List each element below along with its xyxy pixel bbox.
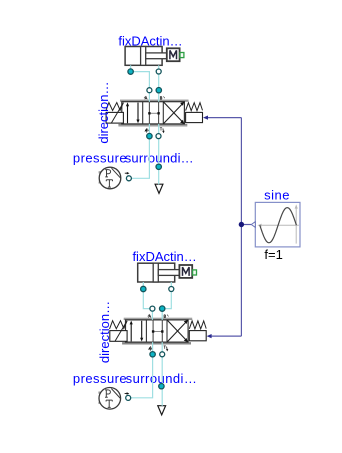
node: junction — [239, 222, 244, 227]
sine output connector — [251, 222, 255, 228]
wire: valve P to pump — [128, 342, 152, 398]
port labels A B P T — [149, 315, 151, 318]
node: valve1 port B — [156, 88, 161, 93]
pressure source (bottom) — [98, 388, 129, 410]
left solenoid box — [106, 112, 123, 123]
wire: cylinder port stubs — [142, 282, 144, 289]
svg-text:surroundi…: surroundi… — [125, 151, 194, 166]
green tab on mass (bottom) — [193, 270, 197, 275]
svg-text:fixDActin…: fixDActin… — [132, 249, 196, 264]
wire: valve T to surroundings/tank — [161, 342, 163, 406]
node: valve1 port T — [156, 134, 161, 139]
left solenoid box — [110, 331, 127, 342]
node: pressure2 port — [126, 395, 131, 400]
cylinder (bottom) — [138, 263, 193, 282]
node: surroundings2 port — [159, 384, 164, 389]
wire: cylinder port stubs — [130, 65, 132, 71]
wire: sine output to junction — [207, 118, 252, 337]
node: surroundings1 port — [156, 164, 161, 169]
centre section port lines — [152, 320, 154, 342]
mass label M (bottom cylinder) — [183, 267, 190, 276]
connection wires (top, hydraulic) — [129, 65, 159, 184]
left section arrows — [127, 105, 129, 124]
left section arrows — [130, 323, 132, 342]
wire: to bottom valve — [211, 335, 242, 337]
arrowhead into top valve — [203, 116, 208, 120]
wire: valve T to surroundings/tank — [158, 124, 160, 184]
right spring — [189, 321, 206, 329]
ports (bottom assembly) — [126, 286, 174, 400]
wire: cylinder A to valve A — [143, 289, 152, 320]
node: cylinder2 port_a — [141, 286, 146, 291]
tank triangle (bottom) — [158, 406, 166, 415]
svg-text:pressure: pressure — [73, 371, 127, 386]
right pilot box — [186, 112, 203, 122]
directional valve (top) — [106, 96, 203, 133]
svg-text:sine: sine — [264, 188, 290, 203]
ports (top assembly) — [126, 69, 161, 181]
node: pressure1 port — [126, 176, 131, 181]
bottom rail — [118, 124, 187, 126]
pressure source (top) — [99, 167, 130, 189]
svg-text:direction…: direction… — [96, 82, 111, 144]
wire: cylinder B to valve B — [162, 289, 171, 320]
wire: cylinder A to valve A — [131, 72, 150, 102]
wire: to top valve — [207, 117, 242, 119]
tank triangle (top) — [155, 184, 163, 193]
connection wires (bottom, hydraulic) — [128, 282, 171, 406]
svg-text:pressure: pressure — [73, 151, 127, 166]
bottom rail — [122, 342, 191, 344]
top rail — [120, 98, 189, 101]
top rail — [124, 317, 193, 320]
centre double-ended bar — [153, 331, 162, 333]
wire: valve P to pump — [129, 124, 150, 178]
crossed section — [163, 102, 184, 124]
valve body — [122, 102, 185, 124]
svg-text:direction…: direction… — [97, 301, 112, 363]
centre section port lines — [148, 102, 150, 124]
cylinder (top) — [125, 47, 180, 66]
node: valve1 port P — [147, 133, 152, 138]
crossed section — [167, 320, 188, 342]
sine curve — [260, 208, 297, 243]
node: valve2 port A — [150, 306, 155, 311]
left spring — [110, 321, 128, 329]
sine block axes — [260, 207, 299, 244]
arrowhead into bottom valve — [207, 334, 212, 338]
green tab on mass — [180, 53, 184, 58]
node: cylinder2 port_b — [169, 287, 174, 292]
valve body — [126, 320, 189, 342]
centre double-ended bar — [149, 112, 158, 114]
sine block U: box — [255, 202, 300, 247]
node: valve2 port B — [160, 306, 165, 311]
svg-text:f=1: f=1 — [264, 247, 282, 262]
left spring — [106, 103, 124, 111]
node: valve2 port P — [150, 352, 155, 357]
node: valve1 port A — [147, 88, 152, 93]
node: cylinder1 port_b — [156, 69, 161, 74]
node: valve2 port T — [160, 352, 165, 357]
directional valve (bottom) — [110, 315, 207, 352]
node: cylinder1 port_a — [128, 69, 133, 74]
wire: cylinder B to valve B — [158, 72, 160, 102]
port labels A B P T — [145, 97, 147, 100]
wire: vertical signal bus — [240, 118, 242, 337]
mass label M (top cylinder) — [170, 50, 177, 59]
right spring — [186, 103, 203, 111]
right pilot box — [189, 331, 206, 341]
